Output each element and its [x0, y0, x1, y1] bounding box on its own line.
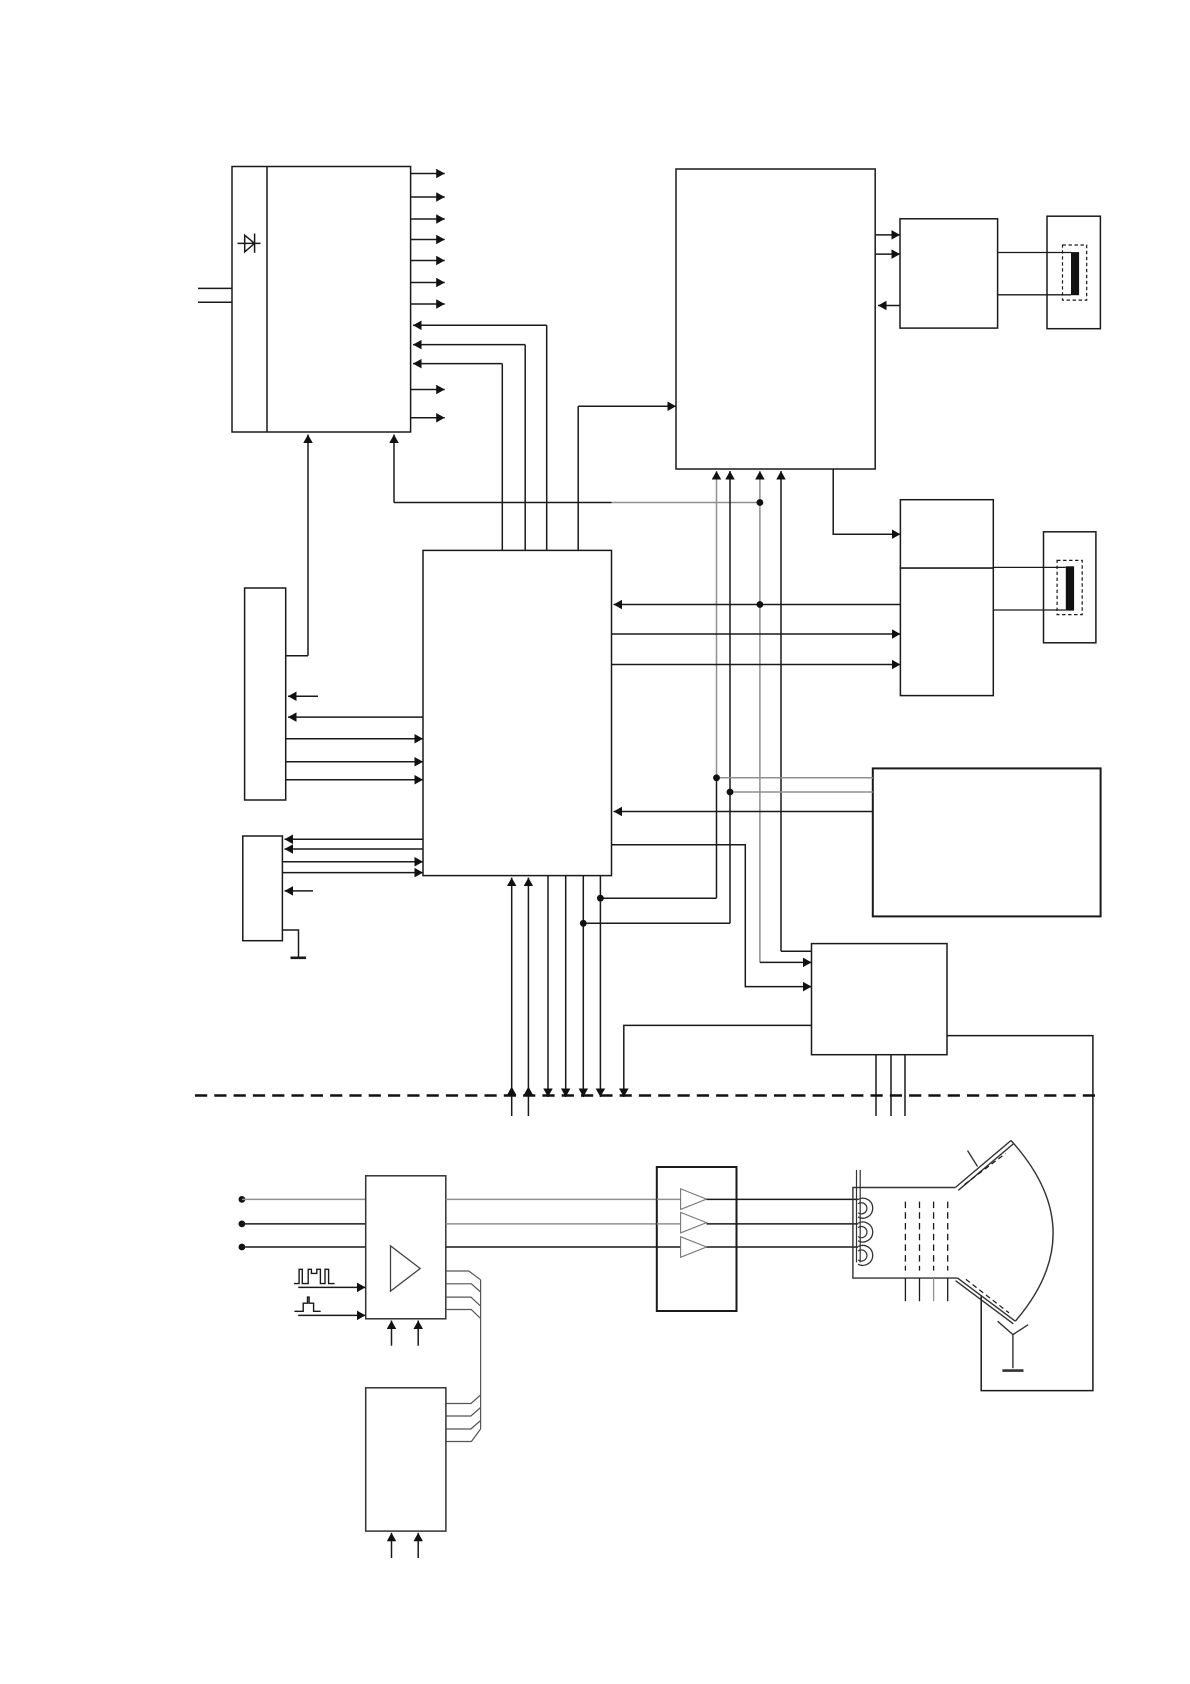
microcontroller U5: [245, 588, 286, 800]
sandcastle pulse waveform: [294, 1269, 335, 1283]
antenna input stub upper: [198, 287, 232, 289]
RGB input node B: [239, 1244, 246, 1251]
SEC6: bottom amplifier section: [239, 1167, 859, 1558]
supply wire up into tuner: [393, 435, 395, 503]
tuner/IF block U1: [232, 167, 411, 433]
gun coil B inner: [858, 1250, 867, 1261]
gray wire V1 to U9: [717, 777, 873, 779]
gun coil G inner: [858, 1226, 867, 1237]
CRT base V right: [1013, 1325, 1028, 1335]
junction dot D: [727, 789, 734, 796]
up arrowhead at divider for pin1 wire: [507, 1087, 516, 1096]
crossover wire from V2 elbow: [583, 922, 730, 924]
feedback wire U3 to U2: [878, 305, 900, 307]
connector CN1 outer box: [1047, 216, 1100, 329]
output arrow 8: [411, 389, 445, 391]
connector CN1 contact bar: [1071, 252, 1079, 295]
junction dot on wire 3: [580, 920, 586, 926]
wire U3 to CN1 lower: [998, 294, 1071, 296]
vertical wire to central top 1: [501, 364, 503, 551]
chassis divider dashed line: [195, 1094, 1102, 1096]
bus wire into sync gen 1: [446, 1395, 481, 1404]
ground bar: [291, 956, 307, 959]
stub arrow into U6: [285, 890, 314, 892]
CRT base V left: [998, 1321, 1013, 1334]
elbow wire U2 bottom to sync block: [833, 469, 900, 534]
wire U8 to CN2 lower: [993, 609, 1066, 611]
sync processor lower block U8: [900, 568, 993, 696]
up wire from divider to U4 pin2: [527, 878, 529, 1116]
gun coil R outer: [858, 1198, 873, 1218]
wire amp to driver G (gray): [446, 1223, 657, 1225]
SEC7: CRT section: [853, 1141, 1053, 1371]
sync processor upper block U7: [900, 500, 993, 568]
connector CN2 outer box: [1044, 532, 1096, 643]
wire amp to driver B: [446, 1246, 657, 1248]
CRT drive block U3: [900, 219, 998, 328]
junction dot C: [713, 774, 720, 781]
vertical bus wire V3 (gray): [759, 471, 761, 962]
wire U2 to U3 a: [875, 234, 900, 236]
bus wire 1 from amp: [446, 1271, 481, 1280]
bus wire 4 from amp: [446, 1310, 481, 1319]
grid lead 4: [947, 1278, 949, 1301]
junction dot V2: [727, 789, 733, 795]
bus wire 2 from amp: [446, 1284, 481, 1292]
down wire U4 to divider 3: [582, 876, 584, 1097]
output arrow 9: [411, 417, 445, 419]
crossover wire from V1 elbow: [600, 897, 716, 899]
wire V3 elbow into U10: [760, 961, 812, 963]
SEC3: central processor and left blocks: [243, 550, 901, 1116]
CRT driver block U13: [657, 1167, 737, 1311]
connector CN2 dashed housing: [1057, 560, 1082, 614]
gun coil G outer: [858, 1222, 873, 1242]
wire U2 to U3 b: [875, 253, 900, 255]
wire R to amp (gray): [242, 1198, 366, 1200]
vertical wire to central top 3: [546, 325, 548, 550]
control wire into tuner 2: [413, 344, 525, 346]
vertical bus wire V2: [729, 471, 731, 923]
U10 bottom lead 2: [890, 1055, 892, 1116]
diode D1 wire: [238, 242, 261, 244]
junction dot A: [757, 499, 764, 506]
tuner partition line: [266, 167, 268, 433]
junction dot on vertical bus: [757, 499, 763, 505]
amp triangle symbol: [391, 1246, 421, 1291]
down wire U4 to divider 4: [599, 876, 601, 1097]
driver input B inside: [657, 1246, 681, 1248]
U10 bottom lead 1: [875, 1055, 877, 1116]
blanking wire into amp: [298, 1314, 365, 1316]
wire from band decoder up into tuner: [307, 435, 309, 656]
sync gen supply arrow 1: [391, 1533, 393, 1558]
vertical wire to central top 2: [524, 345, 526, 551]
junction dot on wire 4: [597, 895, 603, 901]
wire driver to gun R: [707, 1198, 859, 1200]
wire U6 to U4 b: [282, 872, 423, 874]
long wire sync block to U4: [614, 604, 901, 606]
grid dashed electrode 4: [947, 1202, 949, 1271]
control wire into tuner 1: [413, 324, 547, 326]
grid dashed electrode 2: [919, 1202, 921, 1271]
sync gen supply arrow 2: [417, 1533, 419, 1558]
CRT neck outline: [853, 1188, 958, 1279]
wire U5 to U4 c: [286, 779, 423, 781]
down wire from deflection block to divider: [624, 1025, 812, 1097]
output arrow 3: [411, 218, 445, 220]
feedback loop wire from U10 right: [947, 1036, 1093, 1391]
wire amp to driver R (gray): [446, 1198, 657, 1200]
wire U4 to deflection elbow: [612, 845, 812, 987]
reset stub arrow into U5: [288, 695, 318, 697]
RGB input node G: [239, 1221, 246, 1228]
wire U5 to U4 b: [286, 761, 423, 763]
wire elbow from band decoder: [286, 655, 308, 657]
supply wire horizontal black part: [394, 502, 612, 504]
driver triangle G: [681, 1212, 707, 1233]
wire U5 to U4 a: [286, 738, 423, 740]
amp supply arrow 2: [417, 1321, 419, 1346]
junction dot B: [757, 601, 764, 608]
funnel top wall inner: [958, 1144, 1014, 1191]
output arrow 7: [411, 303, 445, 305]
grid dashed electrode 1: [904, 1202, 906, 1271]
RGB input node R: [239, 1196, 246, 1203]
connector CN2 contact bar: [1066, 566, 1074, 610]
down wire U4 to divider 2: [565, 876, 567, 1097]
diode D1: [245, 235, 255, 252]
bus wire into sync gen 3: [446, 1421, 481, 1430]
gun coil B outer: [858, 1245, 873, 1265]
grid lead 1: [904, 1278, 906, 1301]
output arrow 4: [411, 239, 445, 241]
anode tick: [968, 1151, 978, 1167]
output arrow 2: [411, 196, 445, 198]
ground stub from U6: [282, 930, 298, 957]
main processor IC U4: [423, 550, 612, 875]
funnel bottom wall dashed: [966, 1279, 1009, 1313]
video output block U2: [676, 169, 875, 469]
vertical bus wire V1 lower black part: [716, 778, 718, 898]
sync generator block U12: [366, 1388, 446, 1531]
driver input G inside: [657, 1223, 681, 1225]
bus wire into sync gen 4: [446, 1429, 481, 1442]
output arrow 5: [411, 260, 445, 262]
wire driver to gun G: [707, 1223, 859, 1225]
grid dashed electrode 3: [933, 1202, 935, 1271]
output arrow 6: [411, 282, 445, 284]
driver triangle B: [681, 1237, 707, 1258]
U10 bottom lead 3: [904, 1055, 906, 1116]
control wire into tuner 3: [413, 363, 502, 365]
output arrow 1: [411, 173, 445, 175]
SEC5: dashed divider: [195, 1094, 1102, 1096]
vertical bus wire V4: [780, 471, 782, 951]
CRT ground stem: [1012, 1335, 1014, 1369]
sandcastle wire into amp: [298, 1286, 365, 1288]
junction dots overlay: [580, 499, 763, 927]
vertical bus wire V1 (gray): [716, 471, 718, 778]
EEPROM U6: [243, 836, 283, 941]
funnel top wall dashed: [965, 1154, 1006, 1185]
CRT screen arc: [1011, 1141, 1053, 1322]
wire B to amp: [242, 1246, 366, 1248]
driver triangle R: [681, 1189, 707, 1210]
vertical wire to central top 4: [577, 406, 579, 550]
junction dot E: [580, 920, 587, 927]
bus wire into sync gen 2: [446, 1408, 481, 1417]
down wire U4 to divider 1: [547, 876, 549, 1097]
bus vertical wire: [480, 1280, 482, 1429]
grid lead 2: [919, 1278, 921, 1301]
up arrowhead at divider for pin2 wire: [524, 1087, 533, 1096]
wire U4 to sync block b: [612, 664, 901, 666]
yoke lead vertical b: [859, 1170, 861, 1263]
power supply block U9: [873, 768, 1101, 916]
junction dot on V3: [757, 601, 763, 607]
gray wire V2 to U9: [730, 791, 873, 793]
deflection output block U10: [812, 944, 948, 1055]
up wire from divider to U4 pin1: [511, 878, 513, 1116]
wire U6 to U4 a: [282, 861, 423, 863]
wire driver to gun B: [707, 1246, 859, 1248]
funnel top wall outer: [955, 1141, 1011, 1188]
grid lead 3 (gray): [933, 1278, 935, 1301]
wire into video block: [578, 405, 676, 407]
junction dot V1: [713, 775, 719, 781]
long wire jungle to U4: [614, 811, 873, 813]
supply wire horizontal gray part: [612, 502, 760, 504]
funnel bottom wall outer: [958, 1278, 1016, 1321]
diode D1 cathode bar: [254, 234, 256, 253]
wire U4 to U5: [288, 716, 423, 718]
wire G to amp: [242, 1223, 366, 1225]
junction dot F: [597, 895, 604, 902]
SEC4: mid-right blocks and bus verticals: [713, 500, 1100, 1391]
RGB amplifier block U11: [366, 1176, 446, 1319]
bus wire 3 from amp: [446, 1297, 481, 1306]
amp supply arrow 1: [391, 1321, 393, 1346]
wire U4 to sync block a: [612, 633, 901, 635]
SEC2: top-right blocks and connectors: [676, 169, 1100, 962]
antenna input stub lower: [198, 301, 232, 303]
vertical blanking pulse waveform: [294, 1297, 320, 1311]
wire V4 elbow into U10: [781, 950, 812, 952]
funnel bottom wall inner: [956, 1281, 1014, 1324]
driver input R inside: [657, 1198, 681, 1200]
yoke lead vertical a: [856, 1170, 858, 1263]
CRT ground bar: [1002, 1369, 1023, 1372]
wire U4 to U6 b: [285, 848, 424, 850]
wire U3 to CN1 upper: [998, 252, 1071, 254]
connector CN1 dashed housing: [1063, 245, 1087, 300]
wire U4 to U6 a: [285, 838, 424, 840]
wire U8 to CN2 upper: [993, 566, 1066, 568]
gun coil R inner: [858, 1203, 867, 1214]
SEC1: top-left tuner block: [198, 167, 763, 656]
